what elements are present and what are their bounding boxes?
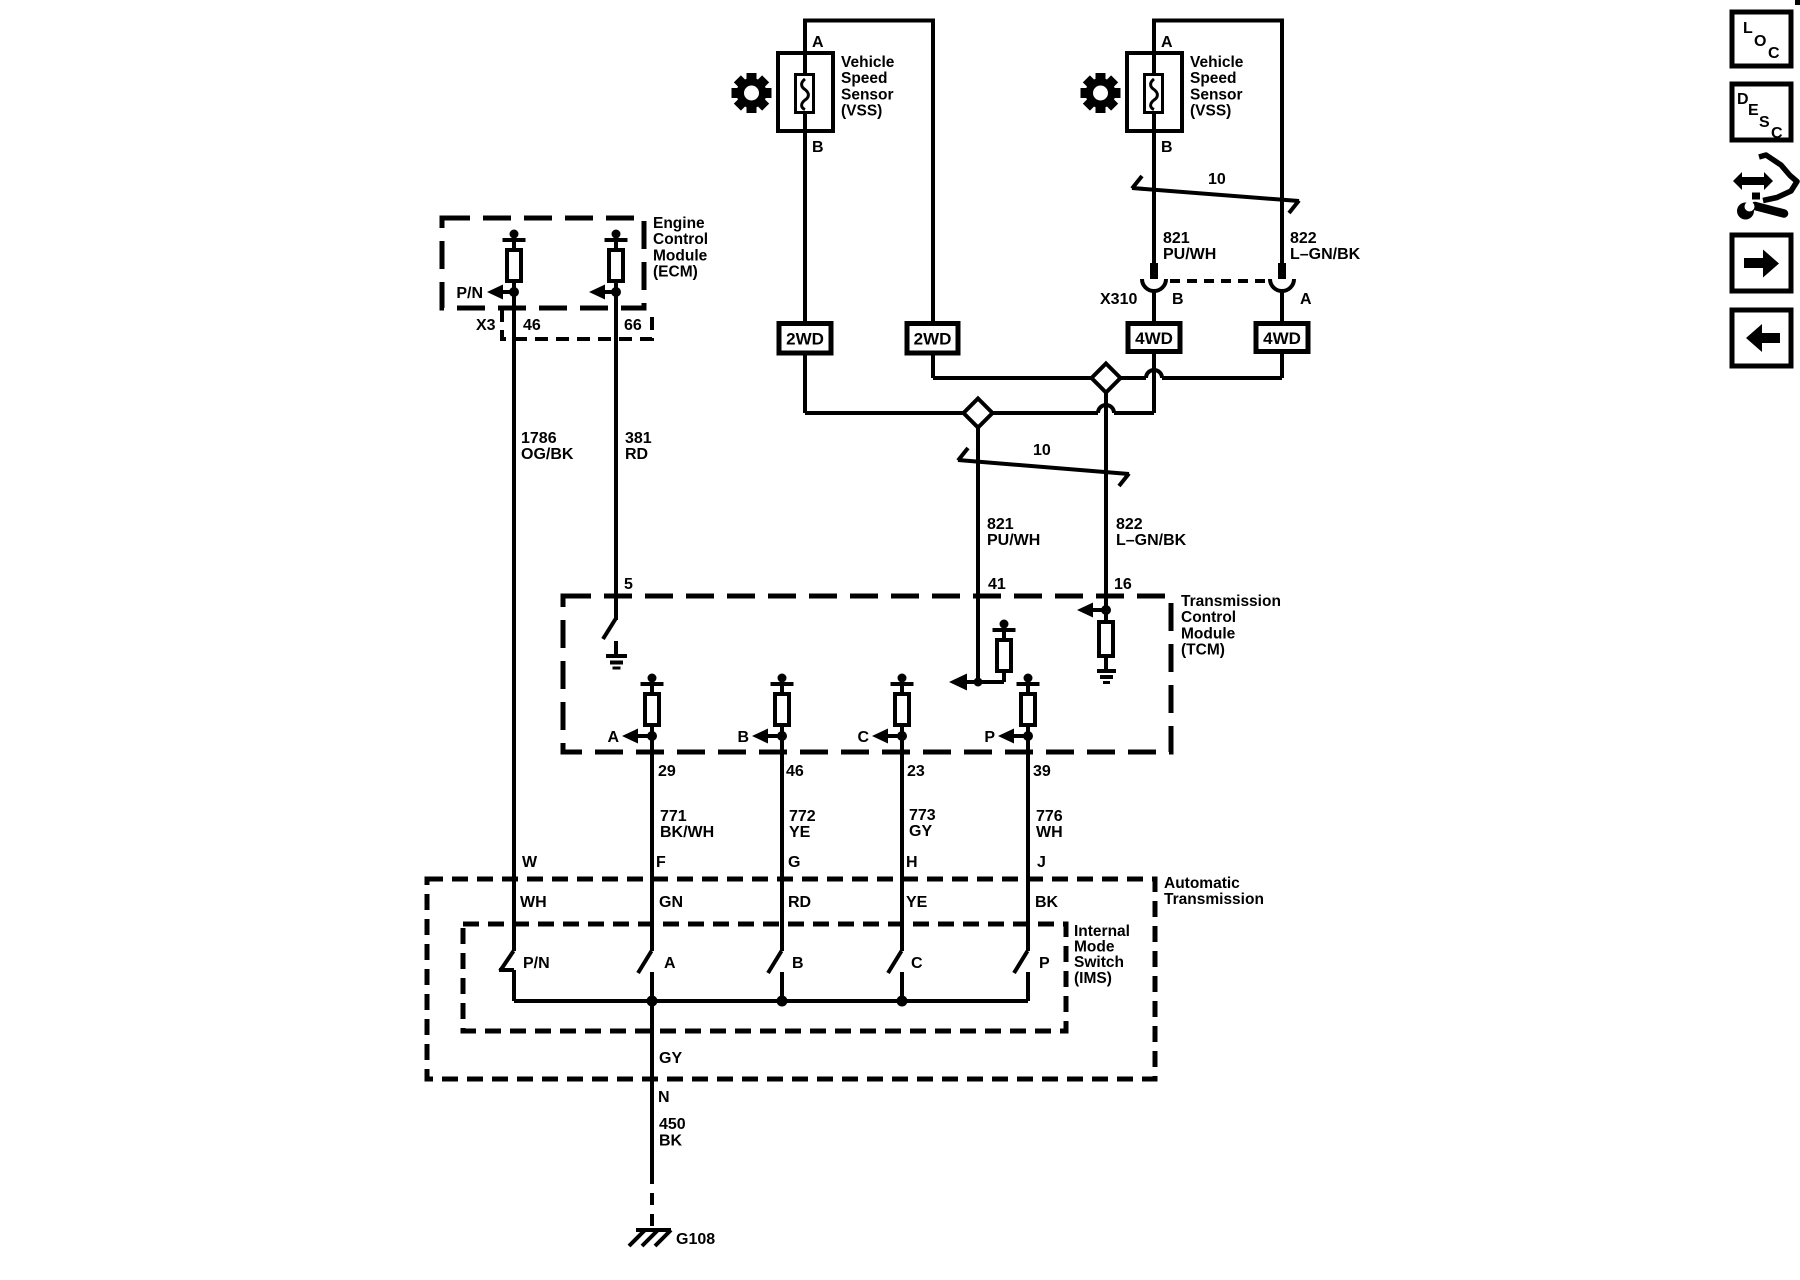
resistor ECM pin 46 — [503, 230, 526, 293]
connector box 4WD #1 — [1128, 324, 1180, 352]
svg-text:B: B — [737, 729, 749, 746]
svg-text:4WD: 4WD — [1135, 329, 1173, 348]
svg-text:16: 16 — [1114, 576, 1132, 593]
switch to ground at TCM pin 5 — [603, 619, 616, 655]
wire 4WD#2 down — [1280, 352, 1284, 379]
icon DESC button — [1732, 84, 1791, 142]
svg-text:E: E — [1748, 102, 1759, 119]
resistor ECM pin 66 — [605, 230, 628, 293]
svg-text:29: 29 — [658, 763, 676, 780]
svg-text:41: 41 — [988, 576, 1006, 593]
ground symbol (TCM pin 16) — [1097, 671, 1116, 683]
switch P/N (IMS) — [499, 951, 514, 1001]
wire VSS1 pin A loop to 2WD — [805, 21, 933, 326]
connector box 4WD #2 — [1256, 324, 1308, 352]
svg-text:GN: GN — [659, 894, 683, 911]
switch P (IMS) — [1014, 951, 1028, 1001]
wire 822 from splice S2 down to TCM pin 16 — [1104, 390, 1108, 610]
svg-text:P: P — [1039, 955, 1050, 972]
svg-text:B: B — [812, 139, 824, 156]
svg-text:23: 23 — [907, 763, 925, 780]
wire 771 BK/WH (TCM A to IMS A) — [650, 736, 654, 951]
junction line lower (2WD#1 to 4WD#1) with hop over 822 wire — [805, 405, 1154, 413]
wire GY (IMS common out) — [650, 1001, 654, 1172]
wire 773 GY (TCM C to IMS C) — [900, 736, 904, 951]
gear icon VSS1 — [732, 73, 772, 113]
junction dot bus A — [647, 996, 658, 1007]
svg-text:2WD: 2WD — [786, 330, 824, 349]
wire 450 BK dashed segment — [650, 1172, 654, 1231]
arrow at TCM pin 16 — [1077, 603, 1106, 618]
ground G108 — [629, 1230, 671, 1246]
vehicle speed sensor VSS2 — [1127, 53, 1182, 131]
svg-text:A: A — [1300, 291, 1312, 308]
svg-text:J: J — [1037, 854, 1046, 871]
svg-text:771BK/WH: 771BK/WH — [660, 808, 714, 841]
wire 772 YE (TCM B to IMS B) — [780, 736, 784, 951]
svg-text:S: S — [1759, 114, 1770, 131]
gear icon VSS2 — [1081, 73, 1121, 113]
svg-text:A: A — [1161, 34, 1173, 51]
svg-text:InternalModeSwitch(IMS): InternalModeSwitch(IMS) — [1074, 923, 1130, 987]
svg-text:WH: WH — [520, 894, 547, 911]
svg-text:B: B — [792, 955, 804, 972]
svg-text:GY: GY — [659, 1050, 682, 1067]
arrow C (TCM) — [872, 729, 902, 744]
wire 821 from splice S1 down to TCM pin 41 — [976, 426, 980, 682]
svg-text:YE: YE — [906, 894, 928, 911]
svg-text:B: B — [1161, 139, 1173, 156]
svg-text:46: 46 — [523, 317, 541, 334]
ECM box (Engine Control Module) — [442, 218, 644, 308]
svg-text:VehicleSpeedSensor(VSS): VehicleSpeedSensor(VSS) — [1190, 54, 1244, 120]
svg-text:822L–GN/BK: 822L–GN/BK — [1116, 516, 1187, 549]
svg-text:C: C — [911, 955, 923, 972]
wire 776 WH (TCM P to IMS P) — [1026, 736, 1030, 951]
wire 4WD#1 down crossing upper junction line — [1152, 352, 1156, 414]
junction dot bus C — [897, 996, 908, 1007]
svg-text:G108: G108 — [676, 1231, 715, 1248]
wire 1786 OG/BK (ECM 46 to IMS P/N) — [512, 292, 516, 951]
wire 381 RD (ECM 66 to TCM 5) — [614, 292, 618, 620]
icon LOC button — [1732, 12, 1791, 66]
junction dot ECM pin 66 — [611, 287, 621, 297]
svg-text:1786OG/BK: 1786OG/BK — [521, 430, 574, 463]
junction dot TCM C — [897, 731, 907, 741]
vehicle speed sensor VSS1 — [778, 53, 833, 131]
junction dot TCM P — [1023, 731, 1033, 741]
connector box 2WD #1 — [779, 324, 831, 354]
resistor at TCM pin 41 — [993, 620, 1016, 683]
TCM box (Transmission Control Module) — [563, 596, 1171, 752]
svg-text:X3: X3 — [476, 317, 496, 334]
svg-text:BK: BK — [1035, 894, 1059, 911]
svg-text:H: H — [906, 854, 918, 871]
resistor at TCM pin 16 — [1099, 610, 1113, 669]
svg-text:D: D — [1737, 91, 1749, 108]
Automatic Transmission box — [427, 879, 1155, 1079]
svg-text:821PU/WH: 821PU/WH — [1163, 230, 1216, 263]
SIDEBAR — [1732, 0, 1800, 366]
icon next (right arrow) button — [1732, 235, 1791, 291]
arrow A (TCM) — [622, 729, 652, 744]
junction dot ECM pin 46 — [509, 287, 519, 297]
svg-text:821PU/WH: 821PU/WH — [987, 516, 1040, 549]
wire X310 B to 4WD#1 — [1152, 291, 1156, 324]
svg-text:F: F — [656, 854, 666, 871]
resistor TCM output B — [771, 674, 794, 737]
switch C (IMS) — [888, 951, 902, 1001]
svg-text:W: W — [522, 854, 538, 871]
connector X310 dashed link — [1170, 279, 1268, 283]
arrow P/N (ECM) — [487, 285, 514, 300]
resistor TCM output C — [891, 674, 914, 737]
wire VSS2 pin B to X310 B — [1152, 131, 1156, 264]
arrow at TCM pin 41 wire end — [949, 674, 1004, 691]
resistor TCM output A — [641, 674, 664, 737]
arrow P (TCM) — [998, 729, 1028, 744]
svg-text:773GY: 773GY — [909, 807, 936, 840]
svg-text:776WH: 776WH — [1036, 808, 1063, 841]
svg-text:G: G — [788, 854, 800, 871]
svg-text:EngineControlModule(ECM): EngineControlModule(ECM) — [653, 215, 708, 281]
connector box X3 (ECM) — [502, 309, 652, 339]
svg-text:B: B — [1172, 291, 1184, 308]
corner mark — [1795, 0, 1800, 5]
junction dot TCM A — [647, 731, 657, 741]
svg-text:10: 10 — [1033, 442, 1051, 459]
svg-text:5: 5 — [624, 576, 633, 593]
connector box 2WD #2 — [907, 324, 958, 354]
svg-text:AutomaticTransmission: AutomaticTransmission — [1164, 875, 1264, 908]
resistor TCM output P — [1017, 674, 1040, 737]
switch B (IMS) — [768, 951, 782, 1001]
svg-text:VehicleSpeedSensor(VSS): VehicleSpeedSensor(VSS) — [841, 54, 895, 120]
svg-text:P/N: P/N — [456, 285, 483, 302]
svg-text:C: C — [1771, 125, 1783, 142]
svg-text:A: A — [664, 955, 676, 972]
svg-text:822L–GN/BK: 822L–GN/BK — [1290, 230, 1361, 263]
splice diamond S2 — [1092, 364, 1121, 393]
svg-text:4WD: 4WD — [1263, 329, 1301, 348]
junction line upper (2WD#2 to 4WD#2) with hop over 4WD#1 wire — [933, 370, 1282, 378]
splice diamond S1 — [964, 399, 993, 428]
wire 2WD#2 down — [931, 353, 935, 378]
svg-text:TransmissionControlModule(TCM): TransmissionControlModule(TCM) — [1181, 593, 1281, 659]
svg-text:C: C — [1768, 45, 1780, 62]
svg-text:772YE: 772YE — [789, 808, 816, 841]
connector X310 pin B — [1142, 263, 1166, 291]
harness marker 10 (middle) — [958, 442, 1129, 486]
wire X310 A to 4WD#2 — [1280, 291, 1284, 324]
svg-text:66: 66 — [624, 317, 642, 334]
junction dot TCM pin 16 — [1101, 605, 1111, 615]
icon service info (arrows and wrench) — [1733, 155, 1797, 220]
arrow B (TCM) — [752, 729, 782, 744]
svg-text:RD: RD — [788, 894, 811, 911]
switch A (IMS) — [638, 951, 652, 1001]
svg-text:381RD: 381RD — [625, 430, 652, 463]
svg-text:A: A — [607, 729, 619, 746]
svg-text:P: P — [984, 729, 995, 746]
connector X310 pin A — [1270, 263, 1294, 291]
svg-text:39: 39 — [1033, 763, 1051, 780]
bus wire (IMS common) — [514, 999, 1028, 1003]
junction dot TCM B — [777, 731, 787, 741]
svg-text:2WD: 2WD — [914, 330, 952, 349]
svg-text:N: N — [658, 1089, 670, 1106]
harness marker 10 (top) — [1132, 171, 1299, 213]
arrow at ECM pin 66 — [589, 285, 616, 300]
icon back (left arrow) button — [1732, 310, 1791, 366]
wire VSS1 pin B to 2WD — [803, 131, 807, 325]
svg-text:X310: X310 — [1100, 291, 1137, 308]
svg-text:C: C — [857, 729, 869, 746]
MAIN DIAGRAM — [427, 21, 1361, 1249]
svg-text:46: 46 — [786, 763, 804, 780]
svg-text:10: 10 — [1208, 171, 1226, 188]
svg-text:P/N: P/N — [523, 955, 550, 972]
svg-text:O: O — [1754, 33, 1766, 50]
wire 2WD#1 down — [803, 353, 807, 413]
wire VSS2 pin A loop to X310 A — [1154, 21, 1282, 265]
ground symbol (TCM pin 5) — [606, 656, 627, 668]
IMS box (Internal Mode Switch) — [463, 924, 1066, 1031]
svg-text:L: L — [1743, 20, 1753, 37]
svg-text:450BK: 450BK — [659, 1116, 686, 1150]
svg-text:A: A — [812, 34, 824, 51]
junction dot bus B — [777, 996, 788, 1007]
